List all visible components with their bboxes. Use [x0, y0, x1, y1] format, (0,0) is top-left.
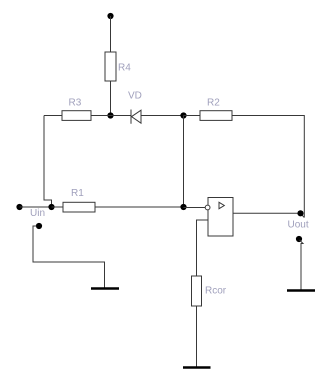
wire	[196, 306, 198, 368]
node junction VD/R2	[180, 112, 186, 118]
node junction Uin/R1	[48, 204, 54, 210]
diode VD	[128, 91, 142, 124]
wire	[184, 115, 201, 117]
wire	[141, 115, 184, 117]
op-amp U1	[205, 198, 233, 237]
svg-text:R4: R4	[118, 63, 131, 74]
svg-text:VD: VD	[128, 91, 142, 102]
wire	[20, 206, 52, 208]
ground right	[287, 289, 315, 292]
ground center	[183, 366, 211, 369]
resistor R1	[52, 188, 96, 212]
svg-text:R3: R3	[69, 98, 82, 109]
svg-text:R2: R2	[207, 98, 220, 109]
resistor R4	[105, 52, 131, 81]
wire	[301, 214, 304, 218]
svg-text:Uout: Uout	[288, 220, 309, 231]
terminal Uin	[16, 204, 22, 210]
resistor R2	[200, 98, 232, 121]
wire	[300, 240, 304, 291]
wire output	[233, 212, 301, 214]
svg-text:Rcor: Rcor	[205, 286, 227, 297]
wire	[44, 115, 62, 117]
node junction R1/opamp	[180, 204, 186, 210]
resistor R3	[62, 98, 91, 121]
wire	[91, 115, 131, 117]
wire	[95, 206, 184, 208]
ground left	[91, 287, 119, 290]
terminal Uin lower	[36, 223, 42, 229]
node top supply	[107, 13, 113, 19]
wire vertical from VD node	[183, 116, 185, 208]
wire	[33, 226, 105, 289]
resistor Rcor	[192, 276, 227, 306]
wire	[184, 207, 206, 209]
wire noninverting input	[197, 220, 209, 276]
wire	[232, 116, 304, 218]
wire	[110, 16, 112, 52]
terminal Uout	[297, 210, 303, 216]
node junction R4/R3/VD	[107, 112, 113, 118]
terminal lower right	[296, 236, 302, 242]
svg-text:R1: R1	[71, 188, 84, 199]
svg-text:Uin: Uin	[30, 208, 45, 219]
wire left feedback	[44, 116, 52, 208]
wire	[110, 81, 112, 116]
